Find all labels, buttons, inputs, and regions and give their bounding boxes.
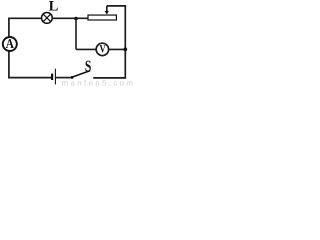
wire voltmeter to right rail <box>109 48 126 50</box>
switch S left terminal <box>71 76 74 79</box>
junction node right <box>123 48 127 52</box>
watermark manfen5.com <box>62 80 132 86</box>
ammeter A <box>3 37 17 51</box>
voltmeter U1 <box>96 43 108 55</box>
wire left rail upper <box>8 18 10 37</box>
label V <box>100 45 106 52</box>
wire slider to right rail top <box>107 5 126 7</box>
wire voltmeter branch vertical <box>75 18 77 49</box>
label A <box>6 39 14 48</box>
wire switch to right rail bottom <box>93 77 125 79</box>
wire voltmeter branch horizontal left <box>76 48 96 50</box>
label S <box>86 61 91 72</box>
battery negative plate (short) <box>51 74 53 80</box>
battery positive plate (long) <box>54 69 56 85</box>
switch S blade <box>73 71 90 77</box>
wire left rail lower <box>8 51 10 77</box>
wire top-left horizontal <box>8 17 42 19</box>
wire battery to switch <box>55 77 70 79</box>
label L <box>49 1 58 10</box>
rheostat body R <box>88 15 116 20</box>
junction node top <box>74 17 78 21</box>
lamp L <box>42 13 53 24</box>
wire right rail vertical <box>124 6 126 79</box>
wire bottom left to battery <box>8 77 51 79</box>
rheostat slider arrow <box>105 6 109 15</box>
wire lamp to rheostat <box>52 17 88 19</box>
